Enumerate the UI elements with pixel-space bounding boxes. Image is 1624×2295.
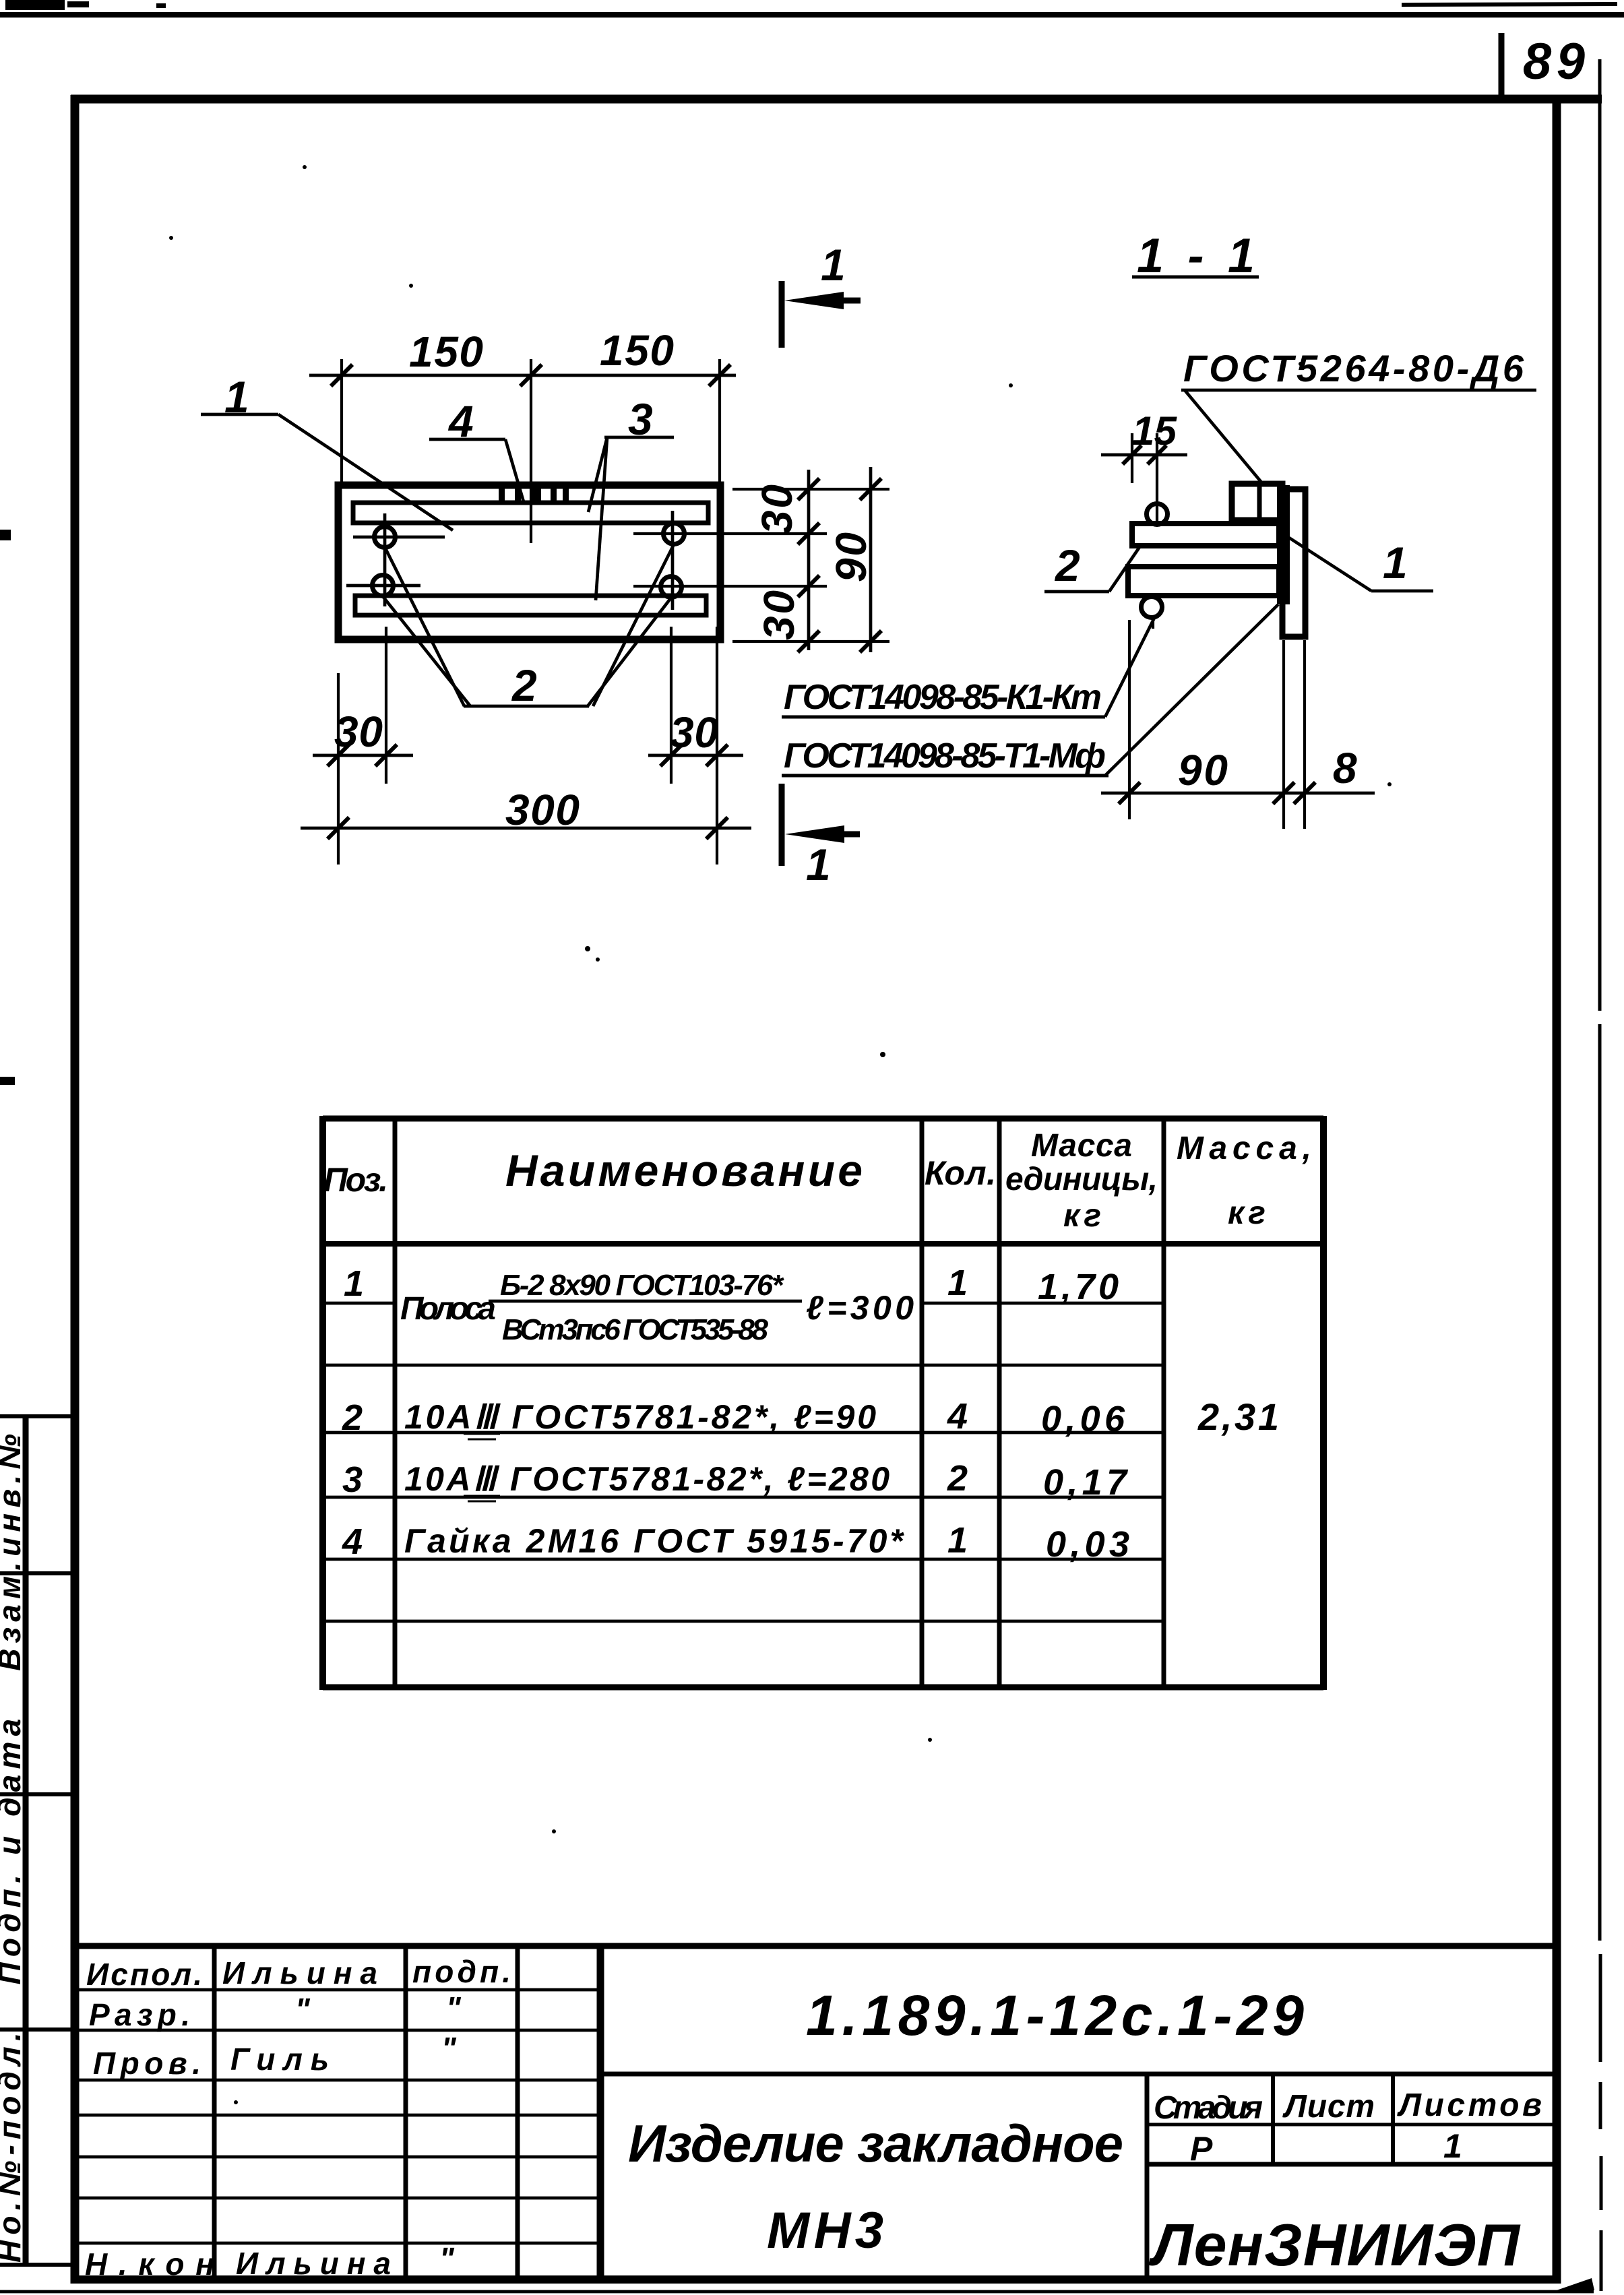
- svg-text:единицы,: единицы,: [1005, 1162, 1158, 1197]
- weld label GOST5264: [1181, 347, 1536, 483]
- section title 1-1: [1132, 229, 1259, 283]
- svg-text:30: 30: [670, 708, 718, 757]
- label 4 plan: [429, 396, 524, 504]
- PARTS TABLE: [323, 1116, 1323, 1690]
- scan artifacts top: [0, 0, 1624, 15]
- svg-text:1.189.1-12с.1-29: 1.189.1-12с.1-29: [806, 1984, 1304, 2047]
- noise specks: [169, 165, 1392, 2104]
- svg-text:Б-2 8х90 ГОСТ103-76*: Б-2 8х90 ГОСТ103-76*: [500, 1269, 784, 1302]
- svg-text:Масса,: Масса,: [1177, 1131, 1311, 1166]
- svg-text:0,03: 0,03: [1046, 1524, 1129, 1565]
- svg-text:Поз.: Поз.: [323, 1161, 388, 1199]
- bottom dimensions 30 30 300: [301, 627, 751, 864]
- svg-text:Лист: Лист: [1282, 2089, 1375, 2125]
- label 1 plan: [201, 372, 453, 530]
- upper bar part3: [353, 503, 708, 523]
- svg-text:Масса: Масса: [1031, 1128, 1132, 1164]
- svg-text:2: 2: [1054, 540, 1080, 590]
- dimension 15: [1101, 408, 1187, 524]
- svg-text:Наименование: Наименование: [505, 1145, 863, 1195]
- svg-text:2,31: 2,31: [1197, 1395, 1279, 1438]
- weld label K1-Kt: [782, 617, 1155, 717]
- svg-text:150: 150: [600, 326, 674, 375]
- section cut mark top: [782, 240, 861, 348]
- svg-text:Кол.: Кол.: [925, 1154, 996, 1192]
- svg-text:1: 1: [806, 840, 831, 889]
- svg-text:1: 1: [1383, 538, 1408, 588]
- nut part4 section: [1232, 484, 1282, 520]
- svg-text:Полоса: Полоса: [400, 1291, 496, 1327]
- svg-text:ГОСТ14098-85-К1-Кт: ГОСТ14098-85-К1-Кт: [784, 678, 1102, 717]
- svg-text:10АⅢ ГОСТ5781-82*, ℓ=280: 10АⅢ ГОСТ5781-82*, ℓ=280: [404, 1460, 889, 1498]
- circle axis lines: [346, 511, 673, 610]
- svg-text:1-1: 1-1: [1137, 229, 1255, 283]
- dimension 150+150 top: [309, 359, 736, 543]
- scan marks left edge: [0, 530, 15, 1085]
- III underline marks: [464, 1433, 500, 1435]
- label 1 section: [1280, 532, 1433, 591]
- page number 89: [1501, 33, 1585, 100]
- svg-text:": ": [446, 1990, 462, 2025]
- svg-text:2: 2: [342, 1397, 363, 1438]
- svg-text:8: 8: [1333, 744, 1357, 792]
- svg-text:ВСт3пс6 ГОСТ535-88: ВСт3пс6 ГОСТ535-88: [502, 1313, 769, 1346]
- dimensions 90 and 8: [1101, 620, 1375, 829]
- rod circles part2: [373, 524, 685, 598]
- svg-text:ГОСТ5264-80-Д6: ГОСТ5264-80-Д6: [1183, 347, 1524, 389]
- lower rod section: [1128, 567, 1279, 596]
- svg-text:0,17: 0,17: [1043, 1462, 1129, 1503]
- svg-text:1,70: 1,70: [1038, 1267, 1119, 1307]
- svg-text:4: 4: [947, 1396, 968, 1437]
- left margin stamp strip: [0, 1416, 75, 2265]
- TITLE BLOCK: [78, 1946, 1558, 2280]
- svg-text:3: 3: [342, 1459, 363, 1500]
- svg-text:4: 4: [342, 1521, 363, 1562]
- svg-text:Испол.: Испол.: [86, 1957, 202, 1992]
- upper rod section: [1132, 524, 1279, 546]
- weld label T1-Mf: [782, 604, 1278, 776]
- svg-text:Стадия: Стадия: [1154, 2090, 1263, 2126]
- svg-text:0,06: 0,06: [1041, 1399, 1125, 1439]
- label 3 plan: [588, 394, 674, 600]
- svg-text:Р: Р: [1190, 2130, 1213, 2168]
- svg-text:Изделие закладное: Изделие закладное: [628, 2114, 1123, 2173]
- svg-text:Разр.: Разр.: [89, 1997, 190, 2032]
- svg-text:": ": [295, 1992, 311, 2027]
- label 2 section: [1044, 540, 1139, 592]
- svg-text:МН3: МН3: [767, 2202, 883, 2259]
- plate part1 outline: [338, 485, 720, 639]
- svg-text:ℓ=300: ℓ=300: [806, 1289, 914, 1327]
- svg-text:ЛенЗНИИЭП: ЛенЗНИИЭП: [1148, 2211, 1521, 2278]
- weld fill: [1277, 485, 1290, 604]
- svg-text:300: 300: [505, 786, 580, 834]
- svg-text:подп.: подп.: [412, 1954, 511, 1989]
- section rod circles: [1147, 504, 1168, 525]
- svg-text:": ": [439, 2241, 455, 2276]
- section cut mark bottom: [782, 784, 860, 889]
- svg-text:1: 1: [947, 1520, 968, 1561]
- svg-text:1: 1: [947, 1263, 968, 1303]
- scan artifacts bottom: [0, 2278, 1594, 2292]
- nut marks part4 top view: [499, 486, 569, 503]
- lower bar part3: [355, 596, 706, 615]
- svg-text:1: 1: [821, 240, 846, 290]
- svg-text:30: 30: [334, 708, 383, 756]
- svg-text:10АⅢ ГОСТ5781-82*, ℓ=90: 10АⅢ ГОСТ5781-82*, ℓ=90: [404, 1398, 876, 1436]
- svg-text:1: 1: [344, 1263, 364, 1304]
- plate part1 section: [1282, 489, 1305, 637]
- right side dimensions 30 90 30: [633, 467, 889, 652]
- svg-text:1: 1: [1443, 2127, 1462, 2165]
- svg-text:2: 2: [511, 660, 537, 710]
- svg-text:150: 150: [409, 327, 483, 376]
- label 2 plan with bracket leaders: [383, 544, 674, 710]
- svg-text:ГОСТ14098-85-Т1-Мф: ГОСТ14098-85-Т1-Мф: [784, 736, 1106, 776]
- right outer thin line: [1600, 59, 1601, 2291]
- svg-text:2: 2: [947, 1458, 968, 1499]
- svg-text:": ": [441, 2031, 457, 2066]
- svg-text:Пров.: Пров.: [93, 2046, 201, 2081]
